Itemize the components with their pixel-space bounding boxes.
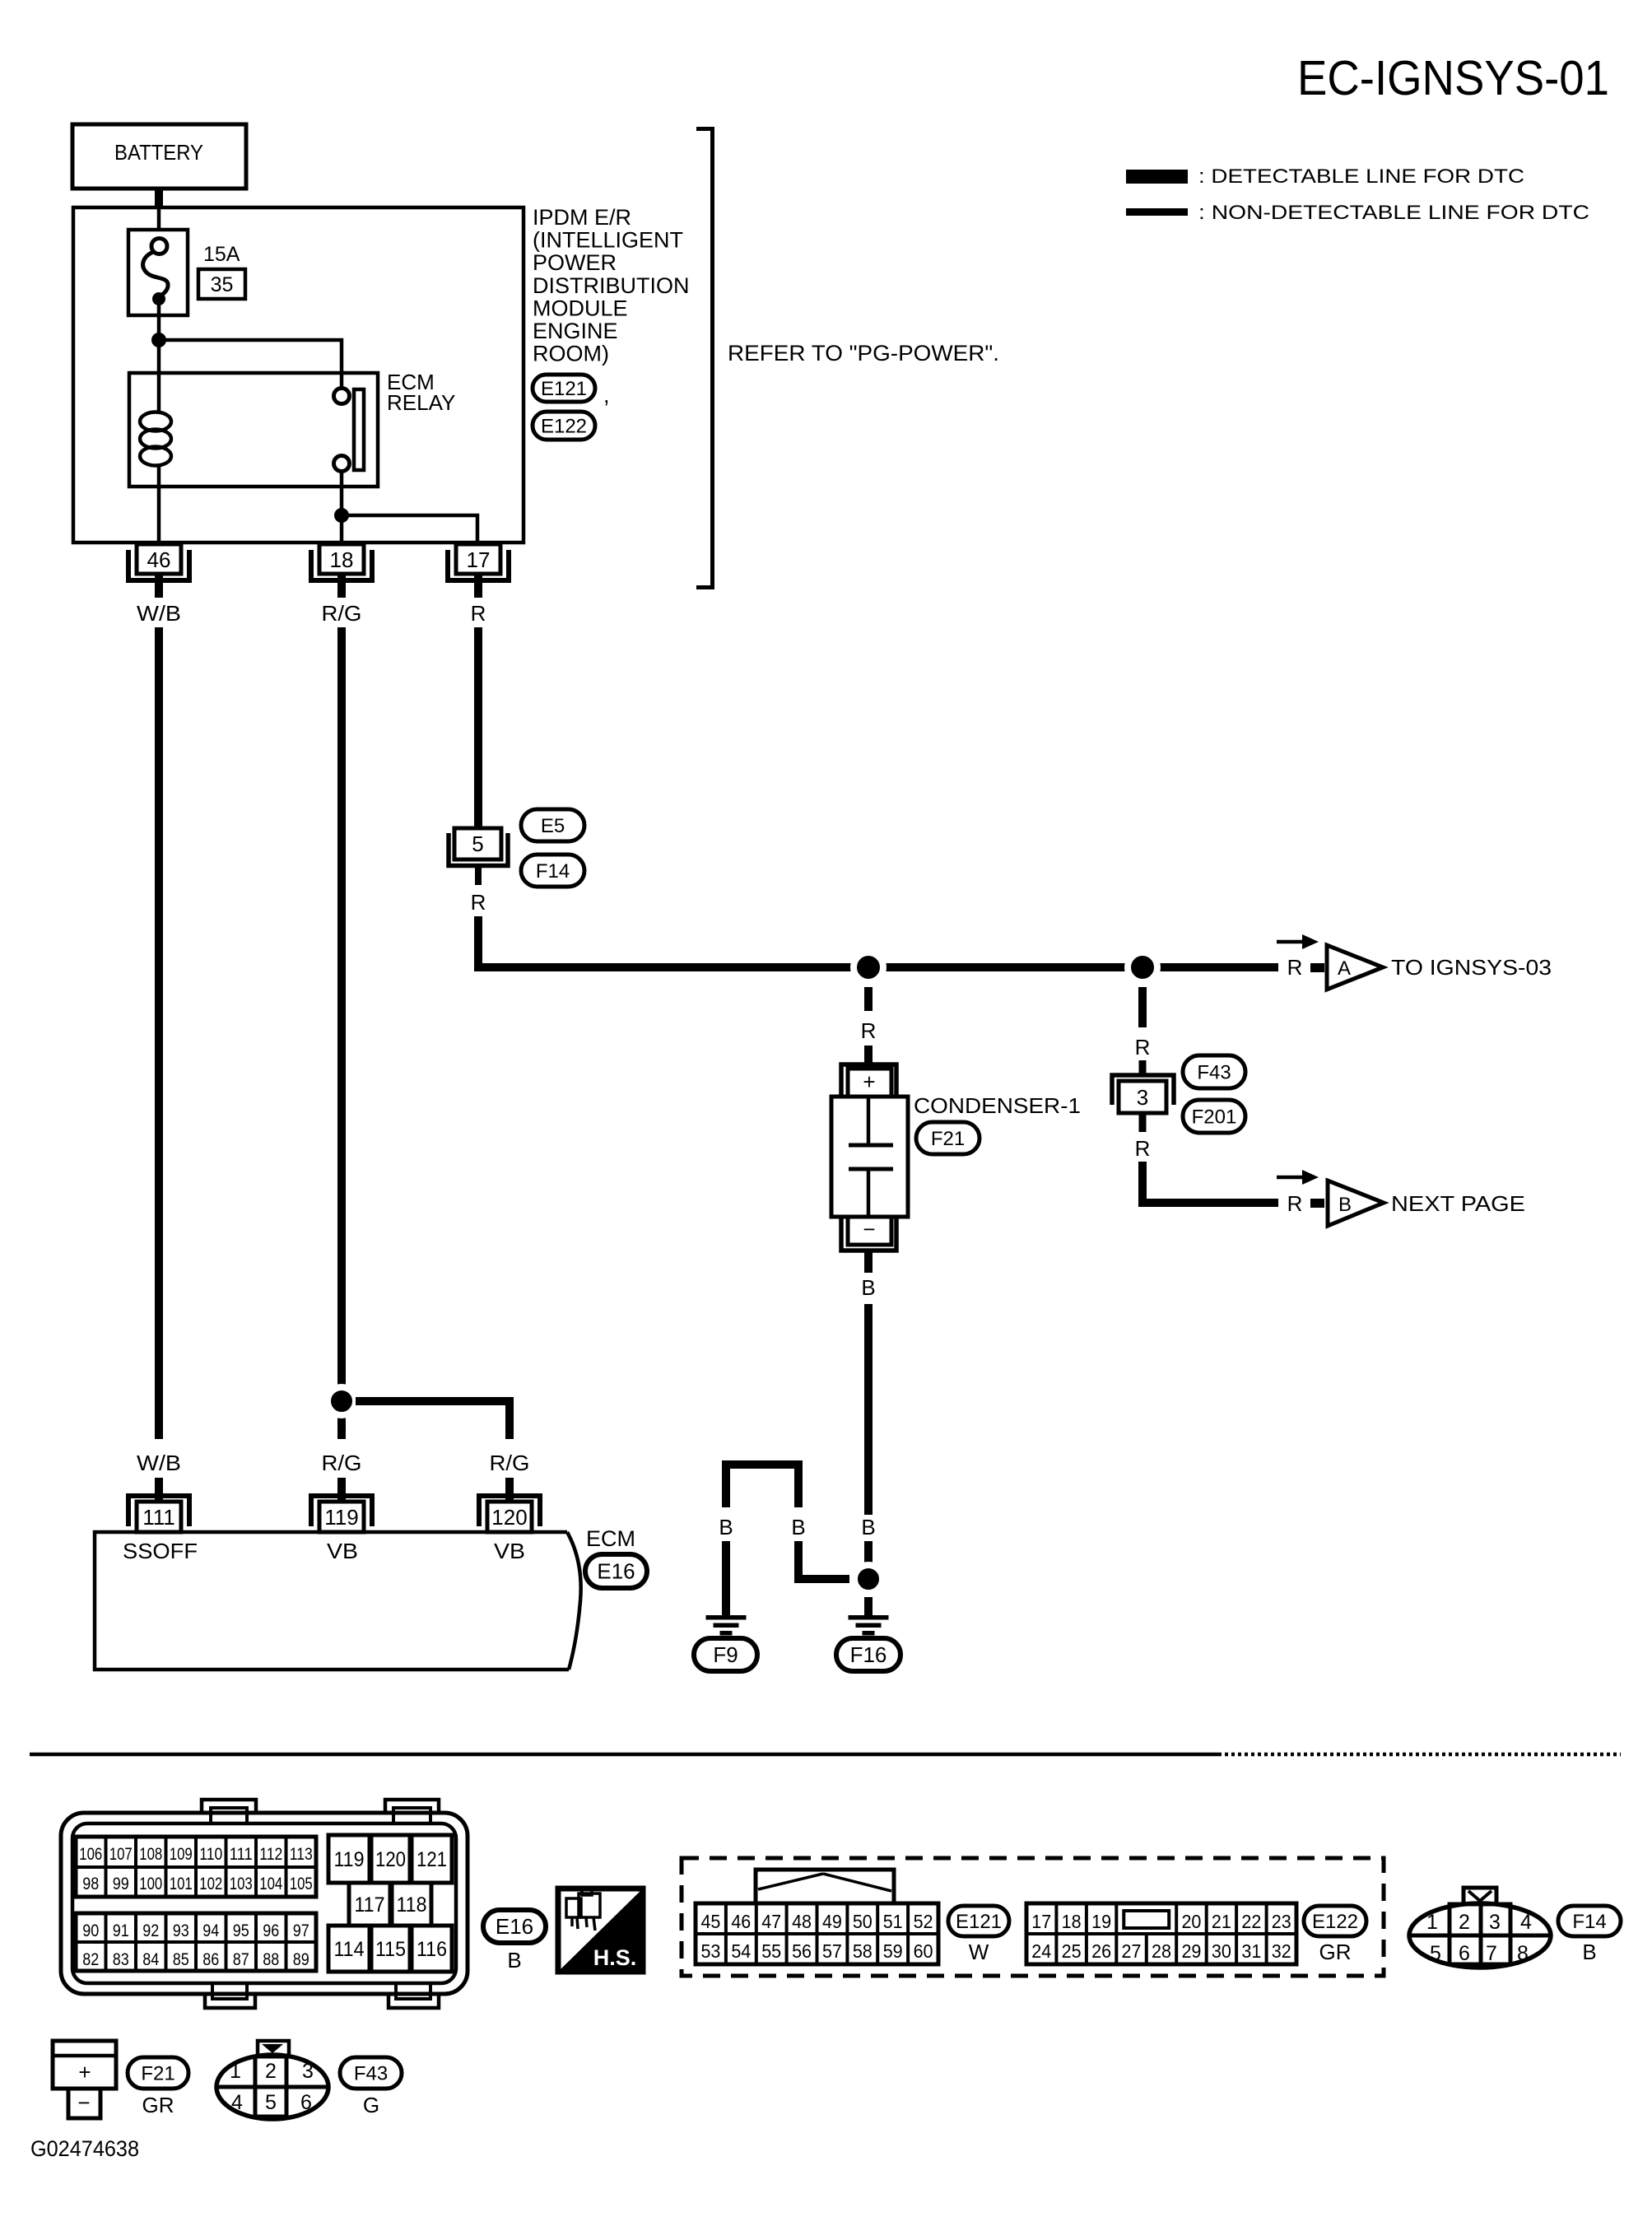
ground symbol F16 bbox=[849, 1615, 889, 1636]
svg-text:46: 46 bbox=[147, 547, 171, 572]
svg-text:92: 92 bbox=[142, 1921, 159, 1940]
wire B to ground F9 bbox=[722, 1541, 730, 1615]
text ECM RELAY bbox=[387, 370, 455, 415]
junction dot below fuse bbox=[151, 333, 166, 347]
wire junction to relay contact bbox=[159, 340, 342, 388]
svg-text:REFER TO "PG-POWER".: REFER TO "PG-POWER". bbox=[728, 341, 999, 366]
wire junction to coil bbox=[157, 340, 161, 414]
svg-text:BATTERY: BATTERY bbox=[114, 140, 203, 165]
connector ref E122 bbox=[533, 412, 595, 440]
svg-text:119: 119 bbox=[334, 1848, 365, 1871]
connector ref E121 bbox=[533, 375, 595, 402]
svg-text:F21: F21 bbox=[931, 1128, 965, 1150]
ECM connector E16 housing bbox=[61, 1800, 468, 2008]
svg-text:98: 98 bbox=[82, 1875, 99, 1893]
F43 connector bbox=[216, 2041, 328, 2119]
svg-text:105: 105 bbox=[290, 1875, 313, 1893]
svg-text:7: 7 bbox=[1486, 1942, 1497, 1965]
svg-text:17: 17 bbox=[467, 547, 491, 572]
svg-text:120: 120 bbox=[491, 1505, 527, 1530]
svg-text:56: 56 bbox=[792, 1940, 812, 1962]
terminal 18 bbox=[311, 544, 372, 598]
svg-text:103: 103 bbox=[230, 1875, 253, 1893]
svg-text:1: 1 bbox=[230, 2060, 241, 2083]
svg-text:3: 3 bbox=[1137, 1085, 1148, 1110]
svg-text:24: 24 bbox=[1031, 1940, 1051, 1962]
connector ref E16 bottom bbox=[483, 1910, 546, 1943]
svg-text:−: − bbox=[77, 2090, 90, 2115]
connector ref F201 bbox=[1183, 1100, 1245, 1133]
junction dot ground bbox=[854, 1565, 882, 1593]
svg-text:29: 29 bbox=[1181, 1940, 1201, 1962]
svg-text:58: 58 bbox=[853, 1940, 873, 1962]
ECM relay box bbox=[129, 373, 378, 487]
svg-text:A: A bbox=[1338, 957, 1351, 980]
svg-text:2: 2 bbox=[1459, 1911, 1470, 1934]
wire branch to terminal 120 bbox=[356, 1401, 510, 1439]
E16 pin grid 114-121 bbox=[328, 1835, 452, 1972]
svg-text:90: 90 bbox=[82, 1921, 99, 1940]
svg-text:82: 82 bbox=[82, 1950, 99, 1969]
svg-text:4: 4 bbox=[231, 2091, 243, 2114]
terminal 120 bbox=[479, 1478, 540, 1532]
connector ref F21 bbox=[916, 1122, 980, 1154]
connector ref E122 bottom bbox=[1304, 1906, 1366, 1936]
svg-text:F14: F14 bbox=[536, 860, 570, 883]
svg-text:5: 5 bbox=[1430, 1942, 1441, 1965]
svg-text:94: 94 bbox=[202, 1921, 219, 1940]
wire stub at arrow A bbox=[1310, 963, 1324, 972]
svg-text:48: 48 bbox=[792, 1911, 812, 1932]
svg-text:55: 55 bbox=[761, 1940, 781, 1962]
svg-text:: NON-DETECTABLE LINE FOR DTC: : NON-DETECTABLE LINE FOR DTC bbox=[1198, 202, 1589, 224]
connector ref E121 bottom bbox=[948, 1906, 1009, 1936]
svg-text:83: 83 bbox=[113, 1950, 129, 1969]
svg-text:115: 115 bbox=[375, 1938, 406, 1961]
title EC-IGNSYS-01 bbox=[1297, 51, 1609, 105]
svg-text:49: 49 bbox=[822, 1911, 842, 1932]
svg-text:F16: F16 bbox=[850, 1642, 887, 1667]
svg-text:32: 32 bbox=[1272, 1940, 1291, 1962]
svg-text:46: 46 bbox=[731, 1911, 751, 1932]
svg-text:53: 53 bbox=[700, 1940, 720, 1962]
battery bbox=[72, 124, 246, 189]
svg-text:106: 106 bbox=[79, 1845, 102, 1864]
condenser-1 F21 bbox=[831, 1064, 908, 1251]
terminal 119 bbox=[311, 1478, 372, 1532]
svg-text:113: 113 bbox=[290, 1845, 313, 1864]
svg-text:45: 45 bbox=[700, 1911, 720, 1932]
svg-text:R/G: R/G bbox=[322, 1451, 362, 1475]
svg-text:28: 28 bbox=[1152, 1940, 1171, 1962]
svg-text:19: 19 bbox=[1091, 1911, 1111, 1932]
svg-text:MODULE: MODULE bbox=[533, 296, 628, 320]
B jumper wire bbox=[726, 1465, 798, 1507]
svg-text:21: 21 bbox=[1212, 1911, 1231, 1932]
svg-text:E121: E121 bbox=[541, 378, 587, 400]
svg-text:R: R bbox=[861, 1018, 877, 1043]
svg-text:R/G: R/G bbox=[322, 601, 362, 626]
wire R/G bbox=[337, 627, 346, 1439]
svg-text:1: 1 bbox=[1426, 1911, 1438, 1934]
svg-text:93: 93 bbox=[173, 1921, 189, 1940]
wire B condenser bbox=[864, 1304, 873, 1515]
svg-text:4: 4 bbox=[1520, 1911, 1532, 1934]
svg-text:88: 88 bbox=[263, 1950, 279, 1969]
wire battery to IPDM bbox=[155, 189, 163, 208]
svg-text:95: 95 bbox=[233, 1921, 249, 1940]
svg-text:102: 102 bbox=[199, 1875, 222, 1893]
ground ref F9 bbox=[694, 1638, 757, 1671]
wire coil to terminal 46 bbox=[157, 463, 161, 543]
svg-text:W: W bbox=[969, 1940, 989, 1964]
svg-text:E16: E16 bbox=[496, 1914, 533, 1939]
svg-text:IPDM E/R: IPDM E/R bbox=[533, 205, 631, 230]
connector 3 bbox=[1112, 1060, 1174, 1132]
svg-text:GR: GR bbox=[142, 2093, 175, 2117]
svg-text:H.S.: H.S. bbox=[593, 1945, 637, 1970]
svg-text:51: 51 bbox=[883, 1911, 903, 1932]
figure number bbox=[30, 2136, 139, 2161]
svg-text:111: 111 bbox=[142, 1505, 175, 1530]
wire R to main line bbox=[478, 916, 1278, 967]
connector ref E5 bbox=[521, 809, 584, 841]
ground ref F16 bbox=[836, 1638, 900, 1671]
svg-text:17: 17 bbox=[1031, 1911, 1051, 1932]
svg-text:E122: E122 bbox=[1312, 1911, 1358, 1933]
dashed box E121/E122 bbox=[682, 1858, 1384, 1976]
svg-text:59: 59 bbox=[883, 1940, 903, 1962]
ECM box bbox=[95, 1532, 581, 1670]
svg-text:VB: VB bbox=[327, 1539, 358, 1563]
svg-text:3: 3 bbox=[302, 2060, 314, 2083]
connector ref F43 bbox=[1183, 1055, 1245, 1088]
svg-text:NEXT PAGE: NEXT PAGE bbox=[1391, 1191, 1525, 1216]
svg-text:EC-IGNSYS-01: EC-IGNSYS-01 bbox=[1297, 51, 1609, 105]
svg-text:R: R bbox=[471, 601, 486, 626]
connector ref F14 bbox=[521, 855, 584, 887]
E16 pin grid 98-113 bbox=[76, 1837, 316, 1897]
svg-text:47: 47 bbox=[761, 1911, 781, 1932]
svg-text:8: 8 bbox=[1517, 1942, 1529, 1965]
wire W/B bbox=[155, 627, 163, 1439]
wire stub at arrow B bbox=[1310, 1199, 1324, 1208]
junction dot connector 3 bbox=[1128, 952, 1157, 982]
wire junction to ground F16 bbox=[864, 1597, 873, 1615]
svg-text:100: 100 bbox=[139, 1875, 162, 1893]
svg-text:54: 54 bbox=[731, 1940, 751, 1962]
wire fuse to junction bbox=[157, 301, 161, 340]
H.S. symbol bbox=[558, 1889, 643, 1972]
svg-text:101: 101 bbox=[170, 1875, 193, 1893]
svg-text:27: 27 bbox=[1122, 1940, 1142, 1962]
svg-text:(INTELLIGENT: (INTELLIGENT bbox=[533, 228, 683, 253]
small arrow above A bbox=[1277, 934, 1319, 949]
svg-text:R: R bbox=[1135, 1136, 1151, 1161]
svg-text:84: 84 bbox=[142, 1950, 159, 1969]
svg-text:SSOFF: SSOFF bbox=[123, 1539, 198, 1563]
svg-text:20: 20 bbox=[1181, 1911, 1201, 1932]
F14 connector bbox=[1409, 1888, 1551, 1968]
svg-text:F201: F201 bbox=[1192, 1106, 1237, 1129]
svg-text:RELAY: RELAY bbox=[387, 390, 455, 415]
arrow B triangle bbox=[1328, 1181, 1384, 1226]
svg-text:F21: F21 bbox=[141, 2063, 175, 2085]
svg-text:97: 97 bbox=[293, 1921, 309, 1940]
legend non-detectable line bbox=[1126, 202, 1589, 224]
svg-text:91: 91 bbox=[113, 1921, 129, 1940]
svg-text:E16: E16 bbox=[597, 1559, 635, 1584]
legend detectable line bbox=[1126, 165, 1524, 188]
svg-text:114: 114 bbox=[334, 1938, 365, 1961]
svg-text:118: 118 bbox=[397, 1893, 427, 1917]
connector ref F43 bottom bbox=[340, 2057, 402, 2089]
svg-text:R: R bbox=[1135, 1035, 1151, 1060]
svg-text:ECM: ECM bbox=[586, 1526, 635, 1551]
bracket refer to PG-POWER bbox=[696, 129, 713, 588]
wire to fuse bbox=[157, 208, 161, 240]
svg-text:ROOM): ROOM) bbox=[533, 342, 609, 366]
terminal 111 bbox=[128, 1478, 189, 1532]
svg-text:+: + bbox=[863, 1069, 875, 1094]
svg-text:E122: E122 bbox=[541, 416, 587, 438]
terminal 17 bbox=[448, 544, 509, 598]
svg-text:107: 107 bbox=[109, 1845, 133, 1864]
svg-text:G02474638: G02474638 bbox=[30, 2136, 139, 2161]
svg-text:5: 5 bbox=[265, 2091, 277, 2114]
svg-text:B: B bbox=[719, 1515, 733, 1539]
ground symbol F9 bbox=[706, 1615, 747, 1636]
svg-text:89: 89 bbox=[293, 1950, 309, 1969]
svg-text:,: , bbox=[603, 383, 610, 408]
svg-text:R: R bbox=[1287, 955, 1303, 980]
svg-text:F43: F43 bbox=[354, 2063, 388, 2085]
svg-text:85: 85 bbox=[173, 1950, 189, 1969]
text NEXT PAGE bbox=[1391, 1191, 1525, 1216]
svg-text:B: B bbox=[1582, 1940, 1596, 1964]
svg-text:108: 108 bbox=[139, 1845, 162, 1864]
svg-text:B: B bbox=[1338, 1194, 1352, 1216]
svg-text:15A: 15A bbox=[203, 243, 240, 266]
svg-text:25: 25 bbox=[1062, 1940, 1082, 1962]
svg-text:109: 109 bbox=[170, 1845, 193, 1864]
wire contact to junction bbox=[340, 472, 344, 515]
wire R bbox=[474, 627, 482, 828]
svg-text:F43: F43 bbox=[1197, 1062, 1231, 1084]
svg-text:60: 60 bbox=[914, 1940, 933, 1962]
E121 connector key tab bbox=[756, 1870, 894, 1903]
svg-text:B: B bbox=[861, 1275, 875, 1300]
svg-text:99: 99 bbox=[113, 1875, 129, 1893]
svg-text:35: 35 bbox=[211, 273, 234, 296]
junction dot R/G bbox=[328, 1387, 356, 1415]
svg-text:B: B bbox=[791, 1515, 805, 1539]
wire stub below dot bbox=[864, 987, 873, 1011]
svg-text:30: 30 bbox=[1212, 1940, 1231, 1962]
wire stub below dot 2 bbox=[1138, 987, 1147, 1027]
svg-text:18: 18 bbox=[1062, 1911, 1082, 1932]
svg-text:119: 119 bbox=[324, 1505, 358, 1530]
text TO IGNSYS-03 bbox=[1391, 955, 1552, 980]
svg-text:6: 6 bbox=[1459, 1942, 1470, 1965]
svg-text:6: 6 bbox=[300, 2091, 312, 2114]
svg-text:96: 96 bbox=[263, 1921, 279, 1940]
svg-text:F14: F14 bbox=[1572, 1911, 1606, 1933]
svg-text:5: 5 bbox=[472, 831, 483, 856]
wire junction to terminal 17 bbox=[342, 515, 477, 543]
text CONDENSER-1 bbox=[914, 1093, 1081, 1118]
separator line bbox=[30, 1753, 1621, 1757]
svg-text:22: 22 bbox=[1241, 1911, 1261, 1932]
wire B to ground junction bbox=[798, 1541, 849, 1579]
svg-text:E121: E121 bbox=[956, 1911, 1002, 1933]
junction dot relay output bbox=[334, 508, 349, 523]
wire B condenser to junction bbox=[864, 1541, 873, 1563]
svg-text:2: 2 bbox=[265, 2060, 277, 2083]
wire to arrow B bbox=[1142, 1162, 1278, 1203]
relay coil bbox=[140, 412, 171, 466]
svg-text:−: − bbox=[863, 1217, 875, 1241]
connector ref E16 bbox=[585, 1554, 647, 1588]
connector ref F14 bottom bbox=[1558, 1906, 1621, 1936]
wire stub to condenser bbox=[864, 1046, 873, 1070]
svg-text:23: 23 bbox=[1272, 1911, 1291, 1932]
svg-text:86: 86 bbox=[202, 1950, 219, 1969]
svg-text:111: 111 bbox=[230, 1845, 253, 1864]
svg-text:120: 120 bbox=[375, 1848, 406, 1871]
svg-text:R/G: R/G bbox=[490, 1451, 530, 1475]
svg-text:W/B: W/B bbox=[137, 601, 181, 626]
terminal 46 bbox=[128, 544, 189, 598]
svg-text:26: 26 bbox=[1091, 1940, 1111, 1962]
svg-text:E5: E5 bbox=[541, 815, 565, 837]
text REFER TO PG-POWER bbox=[728, 341, 999, 366]
svg-text:POWER: POWER bbox=[533, 250, 617, 275]
IPDM E/R label bbox=[533, 205, 690, 366]
svg-text:18: 18 bbox=[330, 547, 354, 572]
junction dot condenser bbox=[854, 952, 883, 982]
wire stub below condenser bbox=[864, 1252, 873, 1273]
svg-text:87: 87 bbox=[233, 1950, 249, 1969]
svg-text:DISTRIBUTION: DISTRIBUTION bbox=[533, 273, 690, 298]
svg-text:57: 57 bbox=[822, 1940, 842, 1962]
connector 5 bbox=[449, 828, 508, 885]
svg-text:110: 110 bbox=[199, 1845, 222, 1864]
F21 condenser connector bbox=[53, 2041, 116, 2118]
svg-text:CONDENSER-1: CONDENSER-1 bbox=[914, 1093, 1081, 1118]
svg-text:TO IGNSYS-03: TO IGNSYS-03 bbox=[1391, 955, 1552, 980]
svg-text:50: 50 bbox=[853, 1911, 873, 1932]
svg-text:117: 117 bbox=[355, 1893, 385, 1917]
svg-text:3: 3 bbox=[1489, 1911, 1501, 1934]
svg-text:R: R bbox=[471, 890, 486, 915]
wire junction to terminal 18 bbox=[340, 515, 344, 543]
svg-text:116: 116 bbox=[416, 1938, 447, 1961]
svg-text:R: R bbox=[1287, 1191, 1303, 1216]
svg-text:B: B bbox=[861, 1515, 875, 1539]
svg-text:G: G bbox=[363, 2093, 379, 2117]
relay contact circles bbox=[334, 389, 350, 472]
svg-text:: DETECTABLE LINE FOR DTC: : DETECTABLE LINE FOR DTC bbox=[1198, 165, 1524, 188]
small arrow above B bbox=[1277, 1170, 1319, 1185]
svg-text:F9: F9 bbox=[713, 1642, 738, 1667]
E121 pin grid 45-60 bbox=[696, 1903, 938, 1964]
E122 pin grid 17-32 bbox=[1026, 1903, 1296, 1964]
svg-text:121: 121 bbox=[416, 1848, 447, 1871]
svg-text:B: B bbox=[507, 1948, 521, 1972]
arrow A triangle bbox=[1327, 945, 1383, 990]
svg-text:GR: GR bbox=[1319, 1940, 1352, 1964]
E16 pin grid 82-97 bbox=[76, 1913, 316, 1971]
svg-text:VB: VB bbox=[494, 1539, 525, 1563]
svg-text:+: + bbox=[78, 2060, 91, 2084]
svg-text:112: 112 bbox=[259, 1845, 282, 1864]
svg-text:ENGINE: ENGINE bbox=[533, 319, 618, 343]
svg-text:104: 104 bbox=[259, 1875, 282, 1893]
fuse 15A 35 bbox=[128, 230, 245, 315]
connector ref F21 bottom bbox=[128, 2057, 188, 2089]
IPDM E/R box bbox=[73, 207, 524, 543]
svg-text:W/B: W/B bbox=[137, 1451, 181, 1475]
svg-text:52: 52 bbox=[914, 1911, 933, 1932]
relay contact bar bbox=[354, 389, 364, 470]
svg-text:31: 31 bbox=[1241, 1940, 1261, 1962]
